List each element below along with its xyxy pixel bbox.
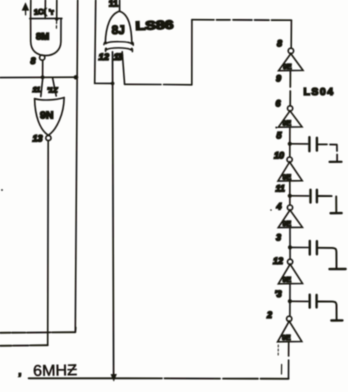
signal arrow (top-left): [22, 3, 28, 15]
capacitor C4 hook: [318, 302, 337, 320]
svg-text:6MHƵ: 6MHƵ: [33, 362, 77, 380]
wire 6MHZ line: [29, 377, 289, 380]
svg-text:4: 4: [276, 202, 282, 212]
svg-text:8: 8: [277, 39, 282, 49]
svg-text:1C(: 1C(: [34, 7, 47, 17]
NOR gate 9N: [35, 98, 65, 136]
inverter 9E #5 bubble: [288, 259, 293, 264]
svg-text:ʹr: ʹr: [49, 7, 54, 16]
XOR gate 8J: [104, 11, 133, 51]
capacitor C1: [309, 137, 317, 151]
junction node cap1: [288, 142, 292, 146]
svg-text:9N: 9N: [40, 110, 53, 122]
wire 8M output: [42, 60, 44, 77]
junction with long vertical: [74, 75, 78, 79]
wire inv4-in down: [289, 228, 291, 259]
wire XOR pin13 loop to inverter chain top: [122, 52, 124, 85]
9N output bubble: [46, 135, 51, 140]
capacitor C3: [310, 241, 317, 255]
inverter 9E #4: [278, 210, 302, 228]
8M output bubble: [40, 55, 45, 60]
capacitor C4 end bar: [331, 319, 342, 322]
wire inv5-in down: [289, 284, 291, 316]
inverter 9E #5: [278, 264, 302, 284]
svg-text:9E: 9E: [283, 277, 292, 284]
capacitor C2: [311, 190, 317, 203]
capacitor C3 hook: [318, 248, 337, 268]
inverter 9E #4 bubble: [287, 205, 292, 210]
svg-text:11: 11: [276, 184, 285, 194]
svg-text:8: 8: [31, 56, 36, 66]
svg-text:12: 12: [99, 52, 110, 63]
wire XOR pin12 / 6MHZ riser: [113, 52, 114, 377]
wire bottom-left lower run: [0, 344, 48, 347]
svg-text:9E: 9E: [282, 335, 291, 342]
junction node cap3: [288, 245, 292, 249]
svg-text:10: 10: [274, 151, 284, 161]
svg-text:12: 12: [273, 256, 283, 266]
ghost stroke near inverter 6 input: [281, 365, 283, 375]
svg-text:13: 13: [33, 134, 43, 144]
pin label 1 (faint): [277, 345, 279, 355]
wire long vertical (top edge to bottom-left): [75, 0, 77, 332]
NAND gate 8M: [30, 18, 62, 55]
speck: [275, 127, 277, 129]
wire 8M input pin 10: [44, 0, 46, 18]
capacitor C4: [310, 295, 317, 308]
svg-text:3: 3: [276, 233, 281, 243]
inverter 9E #2: [278, 111, 302, 128]
svg-text:9: 9: [276, 74, 281, 84]
svg-text:11: 11: [109, 0, 119, 9]
capacitor C2 stub: [292, 195, 309, 197]
wire bottom-left upper run: [0, 331, 75, 334]
capacitor C3 stub: [292, 246, 308, 248]
junction node cap2: [288, 194, 292, 198]
svg-text:11: 11: [33, 85, 41, 94]
wire inv3-in down: [289, 181, 291, 205]
capacitor C1 stub: [292, 143, 308, 145]
svg-text:ʹ3: ʹ3: [275, 289, 282, 299]
svg-text:6: 6: [276, 99, 282, 109]
corner tick: [74, 328, 77, 333]
wire left feed into XOR pin 12: [95, 0, 113, 83]
inverter 9E #3 bubble: [287, 157, 292, 162]
junction at pin-12 riser: [111, 82, 115, 86]
wire inv1-in to inv2-out: [289, 71, 291, 106]
arrowhead onto 6MHZ line: [111, 374, 117, 381]
wire 8M input pin 11: [56, 0, 58, 19]
svg-text:,: ,: [19, 367, 22, 378]
capacitor C1 end bar: [330, 161, 342, 163]
wire XOR output: [119, 0, 121, 11]
svg-text:LS04: LS04: [304, 86, 335, 98]
inverter 9E #2 bubble: [288, 106, 293, 111]
svg-text:′1Z: ′1Z: [47, 86, 58, 95]
svg-text:LS86: LS86: [135, 18, 174, 33]
wire inv6-in down to 6MHZ line: [288, 342, 290, 378]
wire inv2-in down: [289, 127, 291, 157]
wire 9N input 12: [53, 78, 57, 97]
capacitor C3 end bar: [330, 268, 346, 271]
svg-text:5: 5: [277, 131, 283, 141]
capacitor C4 stub: [292, 300, 308, 302]
svg-text:8J: 8J: [112, 25, 125, 37]
junction node cap4: [288, 299, 292, 303]
svg-text:2: 2: [266, 310, 272, 320]
inverter 9E #3: [278, 162, 302, 182]
svg-text:8M: 8M: [36, 32, 49, 43]
wire 9N input 11: [41, 78, 43, 97]
junction node: [41, 75, 45, 79]
inverter 9E #6: [278, 321, 302, 342]
capacitor C1 hook: [318, 144, 337, 161]
speck: [270, 209, 272, 211]
inverter 9E #1: [279, 54, 303, 71]
capacitor C2 hook: [318, 196, 336, 213]
wire horizontal net (to left edge): [0, 76, 78, 78]
wire 9N output (long, to bottom left): [47, 141, 50, 345]
capacitor C2 end bar: [331, 212, 342, 214]
inverter 9E #1 bubble: [288, 48, 293, 53]
inverter 9E #6 bubble: [287, 316, 292, 321]
wire 8M input pin 9: [30, 0, 32, 18]
junction pin11/gate-top: [55, 17, 58, 20]
speck: [1, 189, 3, 191]
